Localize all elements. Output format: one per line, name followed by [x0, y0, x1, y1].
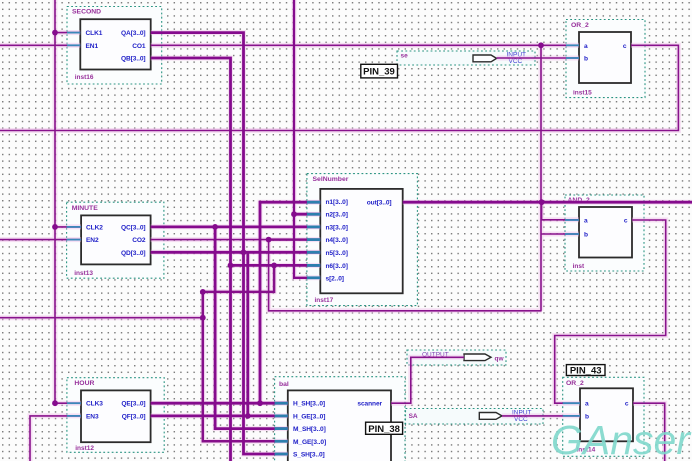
svg-text:a: a [584, 43, 588, 50]
svg-text:c: c [624, 218, 628, 225]
svg-text:QA[3..0]: QA[3..0] [121, 30, 145, 37]
pin stub s [307, 276, 320, 279]
gate AND_2 (inst) symbol body [565, 195, 644, 271]
svg-text:CLK1: CLK1 [86, 30, 103, 37]
pin stub CLK2 [67, 226, 82, 228]
wire bus mid vertical x=247.8 [246, 252, 249, 416]
wire bus QA to S_SH [151, 33, 288, 454]
svg-text:c: c [625, 401, 629, 408]
pin stub OR_2 a [566, 44, 579, 46]
display block bal symbol body [275, 377, 405, 461]
junction n2 row [291, 211, 297, 217]
svg-text:EN1: EN1 [86, 43, 99, 50]
counter block SECOND (inst16) symbol body [67, 7, 162, 85]
wire M_GE vertical feed [203, 292, 288, 441]
wire CO1 to OR_2 a [151, 44, 579, 46]
svg-text:CO2: CO2 [132, 237, 146, 244]
pin stub EN3 [67, 415, 81, 417]
wire left net y=317.7 [0, 317, 203, 319]
svg-text:n4[3..0]: n4[3..0] [326, 237, 348, 244]
counter block MINUTE (inst13) symbol body [67, 202, 164, 278]
wire bus QC to n3 [151, 225, 321, 228]
wire EN2 [0, 239, 81, 241]
pin stub OR_2 inst14 b [563, 415, 580, 417]
svg-text:c: c [623, 43, 627, 50]
pin stub n6 [307, 264, 320, 267]
wire bus QB down [151, 58, 231, 461]
pin stub n4 [307, 238, 320, 241]
wire bus s vertical [294, 0, 320, 278]
junction H_GE row [245, 413, 251, 419]
wire CO2 to n4 [151, 239, 269, 241]
svg-text:MINUTE: MINUTE [72, 205, 99, 212]
pin stub n3 [307, 225, 320, 228]
pin stub S_SH [275, 453, 288, 456]
pin location label PIN_38 [366, 422, 403, 435]
junction y=291.9 [200, 289, 206, 295]
svg-text:b: b [584, 56, 588, 63]
wire CLK3 [55, 402, 81, 404]
svg-text:s[2..0]: s[2..0] [326, 275, 344, 282]
svg-text:QF[3..0]: QF[3..0] [122, 413, 146, 420]
svg-text:CLK3: CLK3 [86, 401, 103, 408]
svg-text:n1[3..0]: n1[3..0] [326, 199, 348, 206]
wire bus QE to H_SH [151, 402, 288, 405]
svg-text:QD[3..0]: QD[3..0] [121, 250, 145, 257]
svg-text:QB[3..0]: QB[3..0] [121, 56, 145, 63]
svg-text:HOUR: HOUR [74, 380, 94, 387]
pin stub AND_2 a [565, 219, 579, 221]
input pin SA symbol [406, 409, 544, 425]
svg-text:a: a [585, 401, 589, 408]
gate OR_2 (inst14) symbol body [563, 377, 644, 456]
pin stub H_SH [275, 402, 288, 405]
pin stub EN2 [67, 239, 82, 241]
svg-text:scanner: scanner [357, 401, 382, 408]
pin stub EN1 [67, 44, 80, 46]
junction n6 row right [271, 263, 277, 269]
svg-text:S_SH[3..0]: S_SH[3..0] [293, 452, 325, 459]
svg-text:inst12: inst12 [75, 445, 94, 452]
svg-text:se: se [401, 53, 409, 60]
wire CO1 branch vertical [540, 45, 542, 311]
pin stub AND_2 b [565, 233, 579, 235]
svg-text:M_GE[3..0]: M_GE[3..0] [293, 439, 326, 446]
pin stub OR_2 inst14 a [563, 402, 580, 404]
svg-text:n5[3..0]: n5[3..0] [326, 250, 348, 257]
svg-text:OR_2: OR_2 [566, 380, 584, 387]
svg-text:H_GE[3..0]: H_GE[3..0] [293, 413, 325, 420]
pin stub M_GE [275, 440, 288, 443]
junction CO1 branch [538, 42, 544, 48]
svg-text:SECOND: SECOND [72, 9, 101, 16]
wire OR_2 inst14 c out [633, 403, 665, 461]
svg-text:GAnser: GAnser [551, 417, 692, 461]
input pin se symbol [397, 51, 535, 65]
output pin qw symbol [407, 350, 506, 365]
wire bus n2 [294, 213, 320, 216]
wire SA to OR_2 b [502, 415, 580, 417]
pin stub n2 [307, 213, 320, 216]
pin stub n1 [307, 201, 320, 204]
wire CLK1 [55, 32, 80, 34]
svg-text:SA: SA [409, 413, 418, 420]
wire lower loop to n4 [269, 240, 542, 311]
svg-text:OR_2: OR_2 [571, 22, 589, 29]
junction QC branch [212, 224, 218, 230]
wire to AND_2 b [541, 233, 579, 235]
svg-text:inst15: inst15 [573, 89, 592, 96]
svg-text:inst17: inst17 [315, 297, 334, 304]
svg-text:H_SH[3..0]: H_SH[3..0] [293, 401, 325, 408]
junction at CLK1 [52, 30, 58, 36]
wire OR_2 c feedback [0, 45, 678, 130]
wire CLK2 [55, 226, 81, 228]
pin stub n5 [307, 251, 320, 254]
wire scanner to output qw [391, 357, 464, 403]
counter block HOUR (inst12) symbol body [67, 378, 164, 453]
wire EN1 [0, 44, 80, 46]
svg-text:bal: bal [279, 381, 289, 388]
wire AND_2 c to OR_2 a [555, 220, 666, 403]
wire clock vertical x=55 [54, 0, 56, 403]
wire bus QF to H_GE [151, 414, 288, 417]
svg-text:QE[3..0]: QE[3..0] [121, 401, 145, 408]
pin stub CLK3 [67, 402, 81, 404]
wire bus n6 [231, 264, 321, 267]
svg-text:out[3..0]: out[3..0] [367, 200, 392, 207]
svg-text:EN3: EN3 [86, 413, 99, 420]
wire EN3 [30, 416, 81, 461]
svg-text:n2[3..0]: n2[3..0] [326, 212, 348, 219]
junction n6 row left [228, 263, 234, 269]
svg-text:inst13: inst13 [74, 270, 93, 277]
pin location label PIN_43 [566, 365, 605, 377]
svg-text:n6[3..0]: n6[3..0] [326, 263, 348, 270]
wire bus M_SH feed [215, 227, 288, 429]
wire se to OR_2 b [497, 57, 579, 59]
junction y=317.7 [200, 315, 206, 321]
junction QD row [241, 249, 247, 255]
svg-text:inst16: inst16 [75, 74, 94, 81]
wire bus out [403, 201, 692, 204]
svg-text:PIN_38: PIN_38 [368, 424, 400, 435]
svg-text:b: b [584, 232, 588, 239]
junction out wire [539, 199, 545, 205]
pin stub OR_2 b [566, 57, 579, 59]
pin stub CLK1 [67, 32, 80, 34]
gate OR_2 (inst15) symbol body [566, 20, 645, 98]
junction n4 row [266, 237, 272, 243]
svg-text:PIN_39: PIN_39 [363, 67, 395, 78]
svg-text:inst: inst [573, 263, 585, 270]
svg-text:a: a [584, 218, 588, 225]
mux block SelNumber (inst17) symbol body [307, 174, 418, 306]
svg-text:CO1: CO1 [132, 43, 146, 50]
wire out jog to AND_2 a [542, 202, 579, 220]
pin stub M_SH [275, 427, 288, 430]
wire n6 link horizontal [203, 265, 274, 292]
wire bus QD to n5 [151, 251, 321, 254]
svg-text:CLK2: CLK2 [86, 224, 103, 231]
svg-text:PIN_43: PIN_43 [570, 365, 602, 376]
svg-text:SelNumber: SelNumber [313, 176, 349, 183]
svg-text:QC[3..0]: QC[3..0] [121, 224, 145, 231]
pin location label PIN_39 [361, 64, 398, 78]
wire bus n1 from QE [260, 202, 320, 403]
svg-text:EN2: EN2 [86, 237, 99, 244]
svg-text:M_SH[3..0]: M_SH[3..0] [293, 426, 326, 433]
junction H_SH row [257, 400, 263, 406]
junction at CLK2 [52, 224, 58, 230]
svg-text:qw: qw [495, 355, 505, 362]
junction at CLK3 [52, 400, 58, 406]
pin stub H_GE [275, 414, 288, 417]
svg-text:n3[3..0]: n3[3..0] [326, 224, 348, 231]
